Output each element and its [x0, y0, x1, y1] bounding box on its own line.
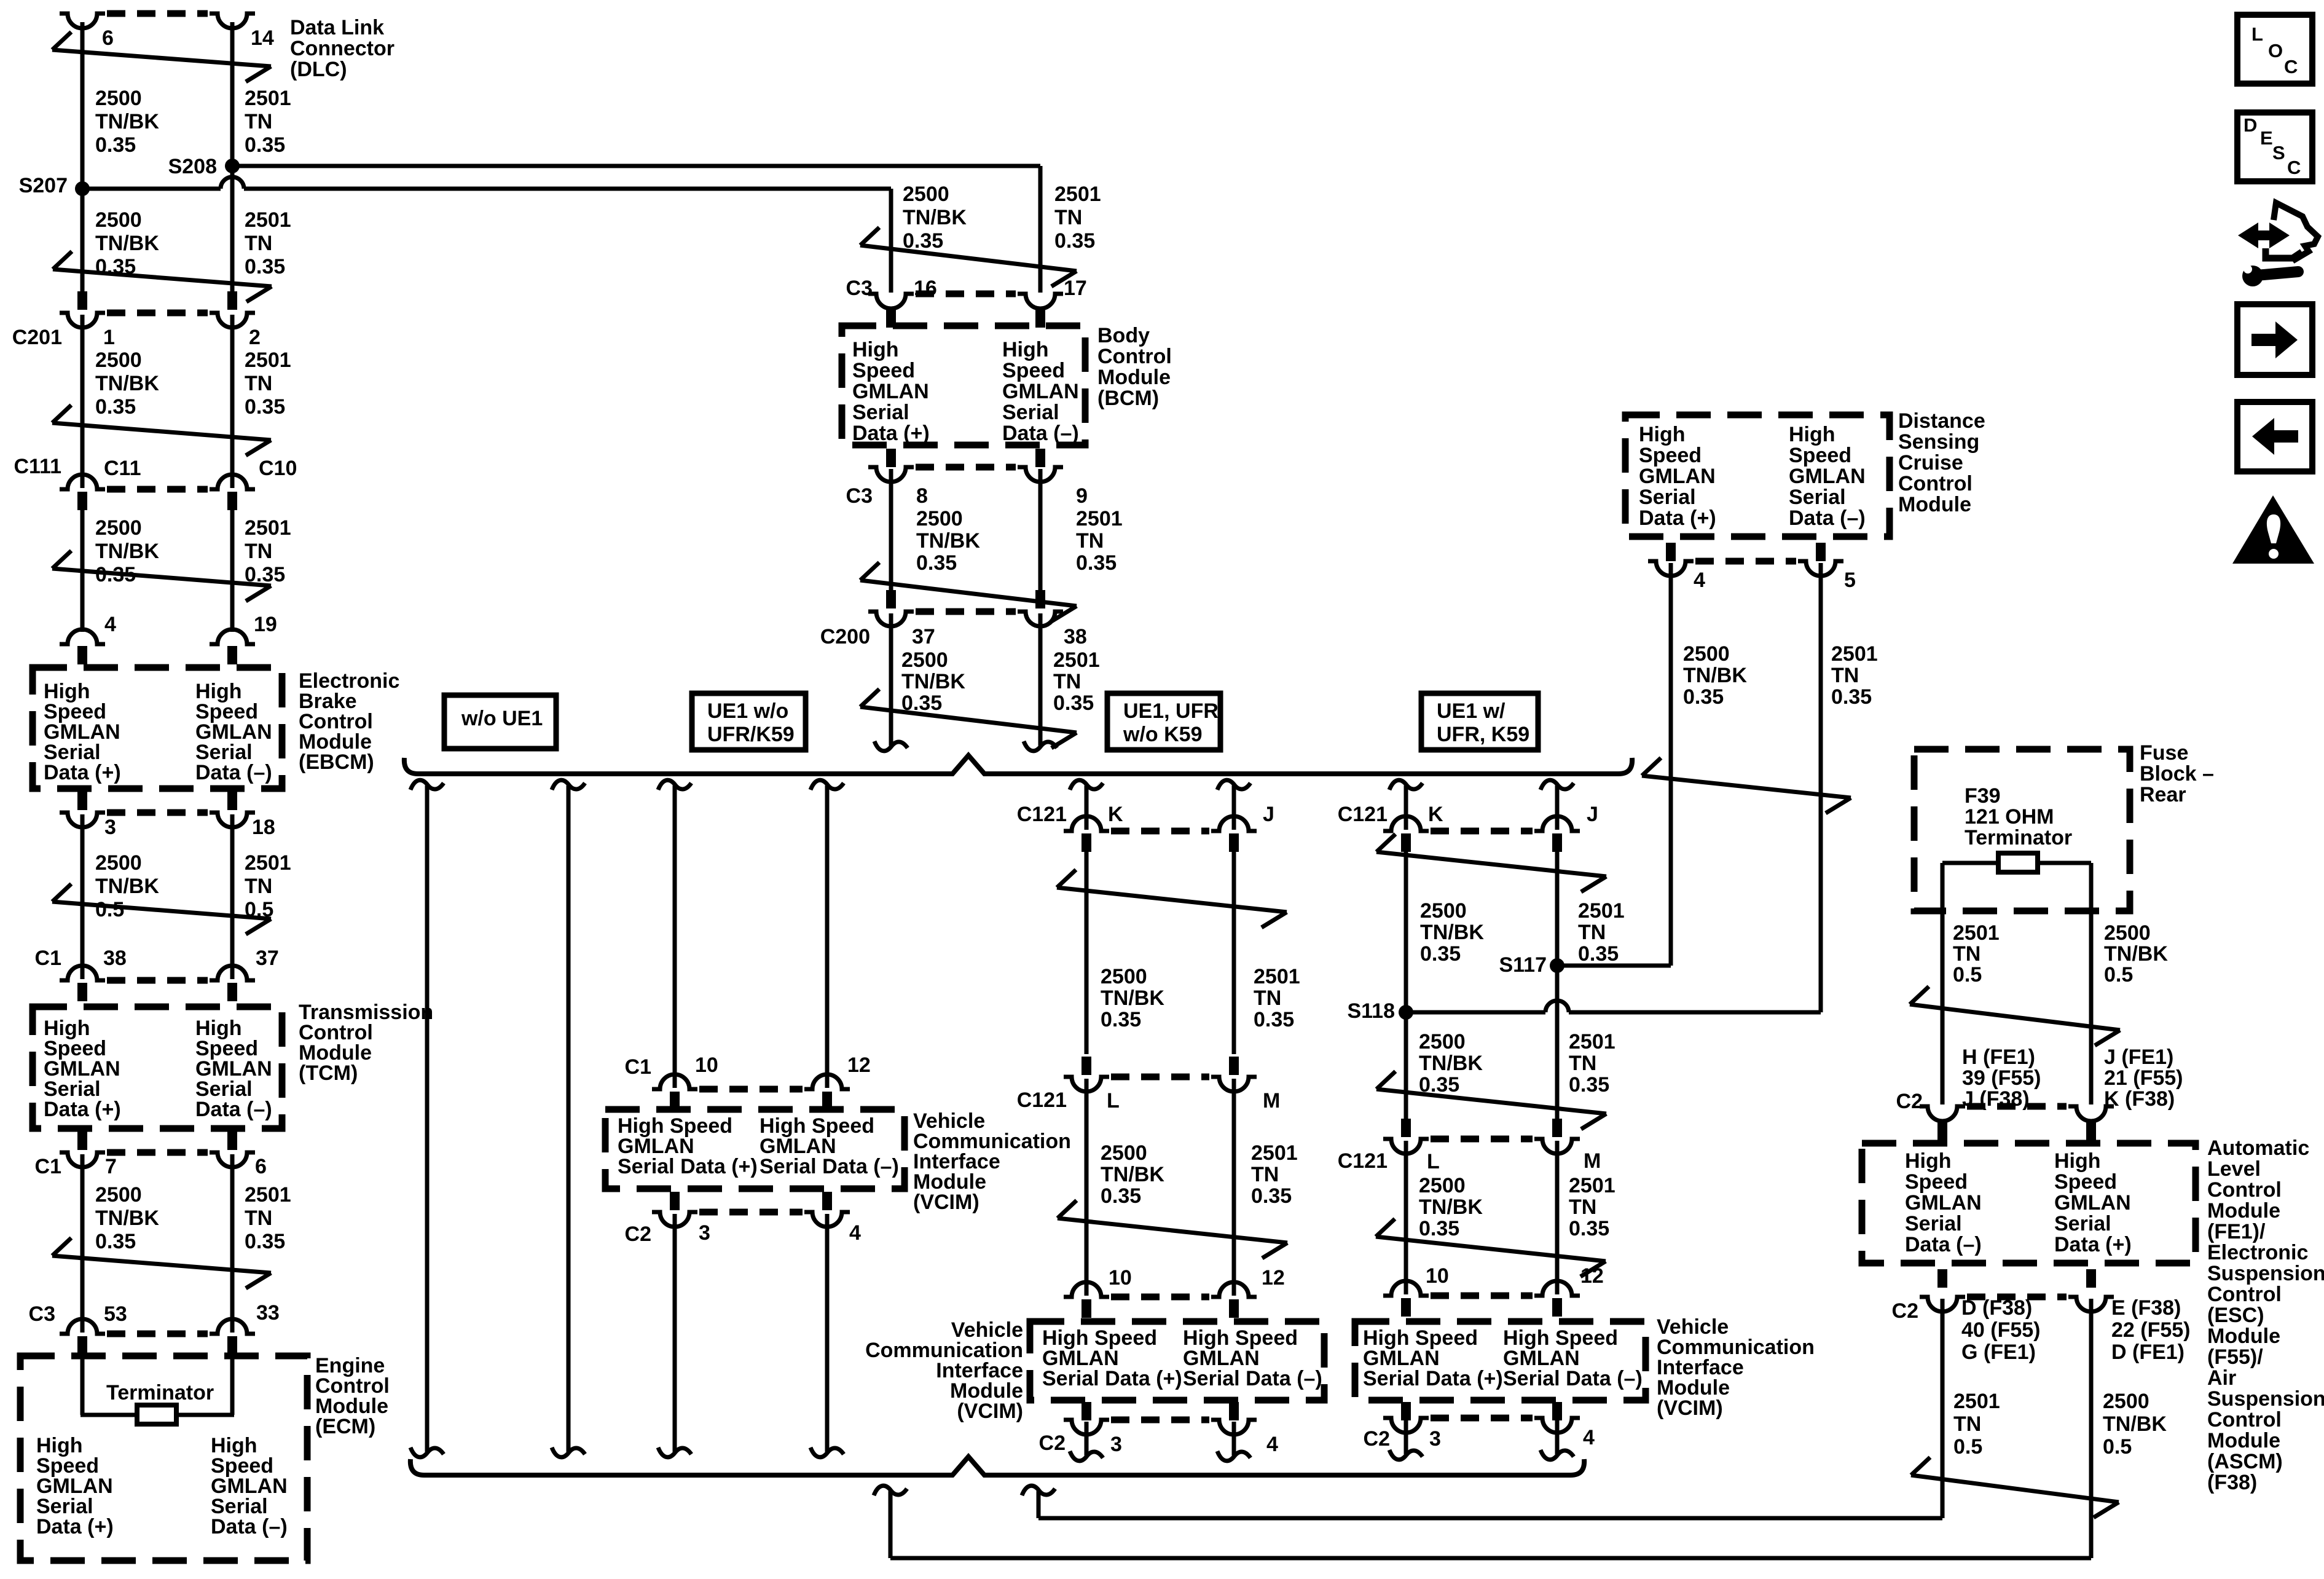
splice S117: [1550, 958, 1564, 973]
VCIM col2 C2 dashed pin line: [699, 1209, 803, 1216]
svg-text:2501: 2501: [1053, 648, 1100, 672]
svg-text:3: 3: [1110, 1433, 1122, 1456]
svg-text:0.35: 0.35: [245, 1230, 285, 1253]
VCIM col4 C2 pin 3 terminal cup: [1383, 1418, 1429, 1433]
svg-text:2500: 2500: [95, 851, 142, 875]
svg-text:TN: TN: [1254, 986, 1281, 1010]
wire col3 2500 from bus to C121-K: [1070, 780, 1103, 830]
svg-text:C121: C121: [1017, 803, 1067, 826]
connector DLC pin 6 terminal cup: [60, 14, 105, 28]
pin number 18: [252, 816, 275, 839]
svg-text:TN/BK: TN/BK: [901, 670, 965, 693]
svg-text:Air: Air: [2207, 1366, 2236, 1390]
svg-text:L: L: [1427, 1150, 1440, 1173]
svg-text:TN/BK: TN/BK: [95, 875, 159, 898]
svg-text:Speed: Speed: [1002, 359, 1065, 382]
wire col4 2501 from bus to C121-J: [1541, 780, 1574, 830]
icon wiring repair (double arrow, outline, wrench): [2238, 203, 2318, 286]
pin letter M (col3): [1263, 1089, 1280, 1112]
TCM C1 pin 37 male terminal: [227, 983, 237, 1001]
label F39 121 OHM Terminator: [1965, 784, 2072, 849]
module box Vehicle Communication Interface Module (VCIM) col3: [1030, 1321, 1324, 1400]
svg-text:TN: TN: [245, 110, 272, 133]
wire col4 2500 from bus to C121-K: [1389, 780, 1423, 830]
ECM C3 pin 53 male terminal: [77, 1336, 87, 1355]
VCIM col4 pin 12 terminal cup: [1534, 1281, 1580, 1296]
svg-text:10: 10: [1426, 1264, 1449, 1288]
VCIM col3 port label High Speed GMLAN Serial Data (+): [1042, 1326, 1182, 1390]
ALC port label High Speed GMLAN Serial Data (-): [1905, 1149, 1982, 1256]
svg-text:Fuse: Fuse: [2140, 741, 2188, 765]
DSCCM pins dashed line: [1695, 558, 1796, 565]
svg-text:J: J: [1263, 803, 1274, 826]
wire label 2501 TN 0.35 (C201-2): [245, 348, 291, 419]
off-page arrow (wires continue above C200): [860, 562, 1077, 621]
svg-text:0.35: 0.35: [1053, 691, 1094, 715]
wire label 2500 TN/BK 0.35 (col3 K): [1101, 965, 1164, 1031]
svg-text:2501: 2501: [245, 851, 291, 875]
pin label E (F38) 22 (F55) D (FE1): [2111, 1296, 2191, 1364]
svg-text:Serial: Serial: [2054, 1212, 2111, 1235]
wire col2 2501 from C2-4 to bus: [811, 1214, 844, 1457]
svg-text:Data (+): Data (+): [44, 1098, 121, 1121]
svg-text:M: M: [1584, 1149, 1601, 1173]
svg-text:Distance: Distance: [1898, 409, 1985, 433]
EBCM pin 3 male terminal: [77, 792, 87, 810]
C121 col4 pin K terminal cup: [1383, 816, 1429, 831]
C121 col3 pin M terminal cup: [1211, 1077, 1257, 1092]
svg-text:0.35: 0.35: [1254, 1008, 1294, 1031]
pin number 37 (C200): [912, 625, 935, 648]
C121 col3 pin J male terminal: [1229, 833, 1239, 852]
pin letter J (col4): [1587, 803, 1598, 826]
svg-text:TN: TN: [1076, 529, 1104, 553]
svg-text:Serial Data (+): Serial Data (+): [1363, 1367, 1503, 1390]
TCM C1 pin 6 terminal cup: [210, 1152, 255, 1167]
wire 2500 TN/BK segment EBCM to C1: [80, 814, 85, 979]
svg-text:TN/BK: TN/BK: [1419, 1052, 1483, 1075]
C121 col3 pin K male terminal: [1082, 833, 1091, 852]
icon warning triangle: [2232, 495, 2314, 564]
TCM port label High Speed GMLAN Serial Data (+): [44, 1017, 121, 1121]
svg-text:D (FE1): D (FE1): [2111, 1341, 2185, 1364]
svg-text:TN: TN: [1831, 664, 1859, 687]
TCM port label High Speed GMLAN Serial Data (-): [195, 1017, 272, 1121]
pin number 38: [103, 947, 127, 970]
svg-text:Data (+): Data (+): [36, 1515, 114, 1538]
svg-text:2500: 2500: [1420, 899, 1467, 923]
label C2 (ALC top): [1896, 1090, 1923, 1113]
svg-text:Speed: Speed: [1905, 1170, 1968, 1194]
svg-text:2501: 2501: [245, 516, 291, 540]
pin number 4 (col2): [849, 1221, 861, 1245]
wire w/o UE1 right (2501): [552, 780, 585, 1457]
label C2 (col4): [1364, 1427, 1390, 1451]
svg-text:Control: Control: [2207, 1178, 2282, 1202]
svg-text:5: 5: [1844, 569, 1856, 592]
svg-text:Control: Control: [2207, 1408, 2282, 1431]
wire 2500 TN/BK segment C201 to C11: [80, 315, 85, 488]
svg-text:TN/BK: TN/BK: [95, 232, 159, 255]
module box Distance Sensing Cruise Control Module: [1625, 415, 1890, 537]
DSCCM pin 5 male terminal: [1816, 543, 1826, 561]
C121 col3 pin L male terminal: [1082, 1057, 1091, 1075]
wire from S208 to BCM C3 pin 17 (horizontal run): [238, 166, 1040, 293]
pin number 3 (col2): [699, 1221, 710, 1245]
VCIM col3 C2 pin 4 terminal cup: [1211, 1420, 1257, 1435]
svg-text:C2: C2: [1039, 1431, 1066, 1455]
svg-text:TN/BK: TN/BK: [1101, 1163, 1164, 1186]
DSCCM pin 5 terminal cup: [1798, 561, 1843, 576]
svg-text:(F55)/: (F55)/: [2207, 1345, 2263, 1369]
svg-text:Control: Control: [1898, 472, 1973, 495]
ALC C2 pin J male terminal: [2086, 1122, 2096, 1141]
wire label 2500 TN/BK 0.35 (col4 L): [1419, 1174, 1483, 1240]
pin label J (FE1) 21 (F55) K (F38): [2104, 1045, 2183, 1111]
svg-text:121 OHM: 121 OHM: [1965, 805, 2054, 829]
off-page arrow (wires continue above TCM C1): [52, 884, 271, 934]
wire label 2501 TN 0.35 (C10): [245, 516, 291, 586]
svg-text:TN: TN: [245, 1207, 272, 1230]
svg-text:2501: 2501: [245, 208, 291, 232]
VCIM col2 C1 pin 10 terminal cup: [652, 1074, 697, 1089]
svg-text:10: 10: [1109, 1266, 1132, 1290]
svg-text:TN: TN: [245, 540, 272, 563]
VCIM col3 port label High Speed GMLAN Serial Data (-): [1183, 1326, 1322, 1390]
off-page arrow (BCM wires continue): [860, 227, 1077, 286]
wire label 2500 TN/BK 0.5 (EBCM-3): [95, 851, 159, 921]
wire 2501 TN 0.5 route to ASCM pin (left): [1022, 1299, 1942, 1518]
harness option bus (bottom brace): [410, 1457, 1584, 1475]
pin number 12 (col4): [1580, 1264, 1604, 1288]
VCIM col3 C2 pin 4 male terminal: [1229, 1402, 1239, 1420]
svg-text:2501: 2501: [1054, 183, 1101, 206]
svg-text:Speed: Speed: [1789, 444, 1851, 467]
svg-text:2501: 2501: [1578, 899, 1625, 923]
svg-text:0.35: 0.35: [1683, 685, 1724, 709]
module name Fuse Block - Rear: [2140, 741, 2214, 806]
resistor F39 121 OHM terminator: [1998, 853, 2038, 872]
svg-text:Terminator: Terminator: [106, 1381, 214, 1404]
wire 2500 TN/BK segment S207 to C201: [80, 189, 85, 291]
svg-text:(EBCM): (EBCM): [299, 750, 374, 774]
VCIM col3 C2 pin 3 terminal cup: [1064, 1420, 1109, 1435]
ALC C2 pin D male terminal: [1937, 1269, 1947, 1288]
svg-text:Data (–): Data (–): [195, 761, 272, 784]
wire label 2500 TN/BK 0.5 (ALC bottom right): [2103, 1390, 2167, 1459]
wire label 2500 TN/BK 0.35 (C201-1): [95, 348, 159, 419]
module name Electronic Brake Control Module (EBCM): [299, 669, 399, 774]
svg-text:Serial: Serial: [1639, 486, 1696, 509]
connector DLC pins 6/14 dashed pin line: [107, 10, 208, 17]
svg-text:2501: 2501: [1953, 1390, 2000, 1413]
svg-text:2500: 2500: [95, 348, 142, 372]
off-page arrow (col4 wires continue): [1376, 834, 1606, 892]
wire S118 to Distance Sensing module pin 5 (hops wire 2501): [1412, 563, 1821, 1012]
svg-text:Serial Data (+): Serial Data (+): [618, 1155, 758, 1178]
VCIM col3 pin 12 terminal cup: [1211, 1282, 1257, 1297]
wire 2501 TN segment DLC-14 to S208: [230, 22, 235, 166]
pin label D (F38) 40 (F55) G (FE1): [1961, 1296, 2041, 1364]
svg-text:39 (F55): 39 (F55): [1962, 1066, 2041, 1090]
svg-text:TN: TN: [1569, 1195, 1596, 1219]
module name VCIM col4: [1657, 1315, 1815, 1420]
option box UE1 w/o UFR/K59: [692, 693, 806, 750]
svg-text:High: High: [852, 338, 899, 361]
svg-text:C2: C2: [1896, 1090, 1923, 1113]
svg-text:C11: C11: [104, 457, 141, 480]
svg-text:0.35: 0.35: [1251, 1184, 1292, 1208]
connector C201 male terminal pin 2: [227, 291, 237, 310]
svg-text:C2: C2: [625, 1223, 651, 1246]
svg-text:0.35: 0.35: [1101, 1184, 1141, 1208]
wire col4 2501 C121-M to VCIM 12: [1555, 1141, 1560, 1294]
svg-text:37: 37: [912, 625, 935, 648]
wire label 2501 TN 0.35 (DSCCM-5): [1831, 642, 1878, 709]
wire 2500 TN/BK 0.5 fuse block to ALC pin J: [2089, 863, 2094, 1105]
svg-text:2500: 2500: [903, 183, 949, 206]
connector C11/C10 dashed pin line: [107, 486, 208, 493]
wire label 2501 TN 0.35 (BCM-9): [1076, 507, 1123, 575]
svg-text:C1: C1: [625, 1055, 651, 1079]
C121 col3 L/M dashed pin line: [1111, 1074, 1209, 1081]
module name VCIM col3 (left side): [865, 1318, 1023, 1423]
off-page arrow (DSCCM wires continue): [1642, 758, 1851, 813]
pin letter M (col4): [1584, 1149, 1601, 1173]
off-page arrow (DLC wires continue): [52, 32, 271, 82]
svg-text:J (FE1): J (FE1): [2104, 1045, 2173, 1069]
svg-text:D: D: [2244, 114, 2257, 136]
wire label 2501 TN 0.35 (col4 J lower): [1569, 1030, 1615, 1097]
svg-text:Data (–): Data (–): [1905, 1233, 1982, 1256]
wire 2500 TN/BK segment TCM to ECM C3: [80, 1154, 85, 1333]
svg-text:2501: 2501: [245, 348, 291, 372]
EBCM pin 19 male terminal: [227, 646, 237, 664]
wire 2501 TN 0.5 fuse block to ALC pin H: [1941, 863, 1945, 1105]
wire 2501 TN segment C10 to EBCM pin 19: [230, 510, 235, 632]
off-page arrow (wires continue below C200): [860, 689, 1077, 748]
svg-text:6: 6: [255, 1155, 267, 1178]
svg-text:K: K: [1428, 803, 1443, 826]
VCIM col2 C1 pin 10 male terminal: [670, 1092, 680, 1110]
ALC C2 pin J terminal cup: [2068, 1106, 2114, 1121]
svg-text:TN: TN: [1953, 942, 1981, 966]
svg-text:0.35: 0.35: [1831, 685, 1872, 709]
DSCCM port label High Speed GMLAN Serial Data (-): [1789, 423, 1866, 530]
svg-text:2500: 2500: [95, 1183, 142, 1207]
svg-text:J: J: [1587, 803, 1598, 826]
svg-text:4: 4: [1694, 569, 1705, 592]
wire col3 2500 C121-L to VCIM 10: [1085, 1079, 1089, 1296]
svg-text:S208: S208: [168, 155, 217, 178]
svg-text:TN: TN: [1251, 1163, 1279, 1186]
svg-text:0.35: 0.35: [916, 551, 957, 575]
label C3 (BCM bottom): [846, 484, 873, 508]
wire w/o UE1 left (2500): [410, 780, 444, 1457]
BCM bottom dashed pin line: [916, 464, 1016, 471]
VCIM col2 C1 pin 12 terminal cup: [804, 1074, 850, 1089]
svg-text:Module: Module: [2207, 1429, 2280, 1452]
svg-text:2500: 2500: [1419, 1030, 1466, 1053]
svg-text:Serial Data (+): Serial Data (+): [1042, 1367, 1182, 1390]
svg-text:2500: 2500: [1101, 965, 1147, 988]
svg-text:H (FE1): H (FE1): [1962, 1045, 2035, 1069]
connector C200 pin 37 terminal cup: [868, 612, 914, 626]
svg-text:Module: Module: [2207, 1199, 2280, 1223]
TCM C1 pin 37 terminal cup: [210, 966, 255, 980]
VCIM col3 C2 pin 3 male terminal: [1082, 1402, 1091, 1420]
svg-text:4: 4: [104, 613, 116, 636]
wire col4 2500 from C2-3 to bus: [1389, 1420, 1423, 1460]
svg-text:0.35: 0.35: [245, 255, 285, 278]
VCIM col4 pin 12 male terminal: [1552, 1298, 1562, 1317]
pin number 53: [104, 1302, 127, 1326]
svg-text:0.35: 0.35: [1101, 1008, 1141, 1031]
svg-text:(ECM): (ECM): [315, 1415, 375, 1438]
wire label 2500 TN/BK 0.35 (col4 K upper): [1420, 899, 1484, 966]
svg-text:Speed: Speed: [852, 359, 915, 382]
svg-text:Serial: Serial: [1002, 401, 1059, 424]
pin number 38 (C200): [1064, 625, 1087, 648]
pin number 1: [103, 326, 115, 349]
wire col2 2501 from bus to VCIM C1-12: [811, 780, 844, 1088]
wire col4 2501 from C2-4 to bus: [1541, 1420, 1574, 1460]
svg-text:2500: 2500: [95, 516, 142, 540]
wire col3 2501 C121-J to C121-M: [1232, 852, 1236, 1054]
wire 2500 TN/BK 0.5 route to ASCM pin (right): [874, 1299, 2091, 1558]
pin number 4 (DSCCM): [1694, 569, 1705, 592]
svg-text:Terminator: Terminator: [1965, 826, 2072, 849]
svg-text:C: C: [2287, 157, 2301, 178]
label C2 (ALC bottom): [1892, 1299, 1918, 1323]
svg-text:40 (F55): 40 (F55): [1961, 1318, 2041, 1342]
svg-text:22 (F55): 22 (F55): [2111, 1318, 2191, 1342]
svg-text:0.35: 0.35: [1569, 1217, 1609, 1240]
ALC C2 top dashed pin line: [1967, 1103, 2067, 1110]
resistor ECM terminator: [137, 1405, 176, 1424]
module box Electronic Brake Control Module (EBCM): [33, 667, 282, 789]
wire label 2500 TN/BK 0.5 (fuse right): [2104, 921, 2168, 986]
VCIM col2 C2 pin 3 terminal cup: [652, 1212, 697, 1227]
svg-text:TN: TN: [1578, 921, 1606, 944]
svg-text:38: 38: [1064, 625, 1087, 648]
EBCM pin 18 terminal cup: [210, 813, 255, 827]
svg-text:C1: C1: [35, 1155, 61, 1178]
connector C201 dashed pin line: [107, 310, 208, 317]
svg-text:C10: C10: [259, 457, 297, 480]
wire label 2500 TN/BK 0.35 (col3 L): [1101, 1141, 1164, 1208]
off-page arrow (col3 wires continue): [1057, 870, 1287, 927]
svg-text:2501: 2501: [1254, 965, 1300, 988]
svg-text:Data (+): Data (+): [44, 761, 121, 784]
pin number 16: [914, 277, 937, 300]
svg-text:Serial Data (–): Serial Data (–): [1503, 1367, 1643, 1390]
pin number 7: [105, 1155, 117, 1178]
svg-text:14: 14: [251, 26, 274, 50]
connector C10 terminal cup: [210, 474, 255, 489]
TCM C1 pin 6 male terminal: [227, 1132, 237, 1150]
pin number 12 (col2): [847, 1053, 871, 1077]
svg-text:C3: C3: [29, 1302, 55, 1326]
svg-text:0.5: 0.5: [2103, 1435, 2132, 1459]
svg-text:w/o K59: w/o K59: [1123, 723, 1202, 746]
svg-text:Data (–): Data (–): [1789, 506, 1866, 530]
svg-text:Serial: Serial: [852, 401, 909, 424]
svg-text:C2: C2: [1364, 1427, 1390, 1451]
svg-text:Speed: Speed: [2054, 1170, 2117, 1194]
ALC C2 bottom dashed pin line: [1967, 1294, 2067, 1301]
pin number 37: [256, 947, 279, 970]
wire label 2500 TN/BK 0.35 (BCM C3-16): [903, 183, 967, 253]
svg-text:S: S: [2272, 142, 2285, 163]
svg-text:Data (–): Data (–): [1002, 422, 1079, 445]
off-page arrow (col3 wires continue lower): [1058, 1200, 1287, 1258]
pin number 4 (EBCM): [104, 613, 116, 636]
VCIM col3 C2 dashed pin line: [1111, 1417, 1209, 1423]
svg-text:1: 1: [103, 326, 115, 349]
svg-text:Module: Module: [1898, 493, 1971, 516]
svg-text:6: 6: [102, 26, 114, 50]
svg-text:0.35: 0.35: [1569, 1073, 1609, 1097]
svg-text:TN: TN: [1054, 206, 1082, 229]
off-page arrow (ALC bottom wires continue): [1911, 1457, 2119, 1518]
off-page arrow (wires continue above ECM C3): [52, 1238, 271, 1288]
module name VCIM col2: [913, 1109, 1071, 1214]
EBCM pin 4 male terminal: [77, 646, 87, 664]
BCM port label High Speed GMLAN Serial Data (+): [852, 338, 930, 445]
svg-text:(VCIM): (VCIM): [1657, 1396, 1723, 1420]
VCIM col4 C2 pin 4 terminal cup: [1534, 1418, 1580, 1433]
wire col2 2500 from C2-3 to bus: [658, 1214, 691, 1457]
svg-text:TN: TN: [245, 372, 272, 395]
wire F39 terminator top run: [1942, 861, 2091, 865]
wire label 2500 TN/BK 0.35 (S207 to C201): [95, 208, 159, 278]
svg-text:12: 12: [1580, 1264, 1604, 1288]
VCIM col2 C1 pin 12 male terminal: [822, 1092, 832, 1110]
module box Engine Control Module (ECM): [20, 1356, 307, 1561]
wire label 2501 TN 0.5 (EBCM-18): [245, 851, 291, 921]
C121 col3 pin J terminal cup: [1211, 816, 1257, 831]
pin number 33: [256, 1301, 280, 1325]
svg-text:UE1 w/: UE1 w/: [1437, 699, 1505, 723]
module box Fuse Block - Rear: [1914, 749, 2130, 911]
svg-text:High: High: [1789, 423, 1835, 446]
svg-text:3: 3: [699, 1221, 710, 1245]
TCM C1 pin 7 terminal cup: [60, 1152, 105, 1167]
svg-text:C111: C111: [14, 455, 61, 478]
wire 2501 TN segment EBCM to C1: [230, 814, 235, 979]
svg-text:Data Link: Data Link: [290, 16, 384, 39]
svg-text:7: 7: [105, 1155, 117, 1178]
svg-text:0.5: 0.5: [2104, 963, 2133, 986]
off-page arrow (wires continue above C11/C10): [52, 405, 271, 455]
svg-text:12: 12: [1262, 1266, 1285, 1290]
svg-text:C121: C121: [1338, 803, 1388, 826]
wire 2501 TN segment C200 to harness option bus: [1024, 613, 1057, 751]
svg-text:2500: 2500: [95, 87, 142, 110]
C121 col4 pin L male terminal: [1401, 1119, 1411, 1137]
wire 2501 TN segment C201 to C10: [230, 315, 235, 488]
svg-text:(DLC): (DLC): [290, 58, 347, 81]
svg-text:TN: TN: [1053, 670, 1081, 693]
svg-text:(TCM): (TCM): [299, 1061, 358, 1085]
wire col4 2500 S118 to C121-L: [1404, 1012, 1408, 1120]
component label Data Link Connector (DLC): [290, 16, 395, 81]
svg-text:4: 4: [1583, 1426, 1595, 1449]
svg-text:Block –: Block –: [2140, 762, 2214, 786]
wire ECM internal left leg: [80, 1355, 85, 1415]
VCIM col3 pin 10 terminal cup: [1064, 1282, 1109, 1297]
